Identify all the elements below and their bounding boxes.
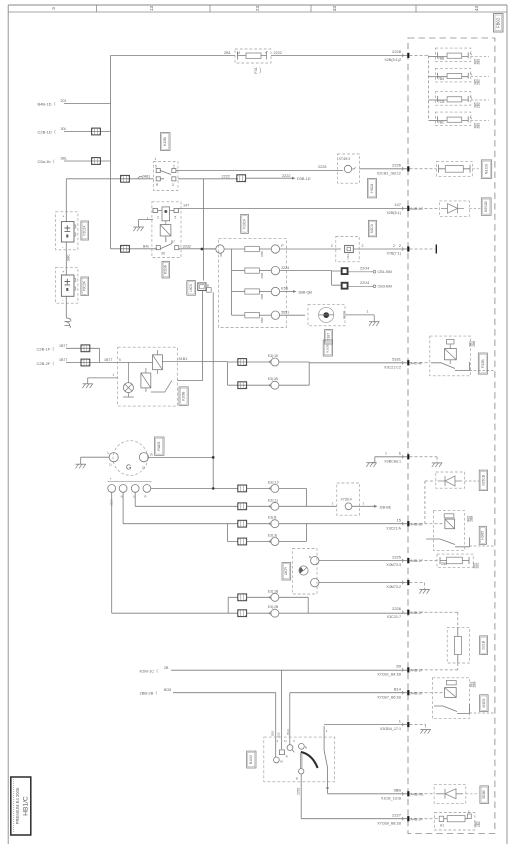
svg-text:5: 5 [155,164,157,168]
generator pin U [131,485,139,493]
socket U1A terminal [345,245,354,252]
wire dimmer2 to panel [319,582,407,584]
svg-text:3O: 3O [161,251,166,255]
svg-text:201: 201 [61,99,67,103]
wire 2226 relay to XT49 [176,170,343,172]
wire row 249 to U1A [280,248,341,250]
switch pivot stem [301,753,302,769]
svg-text:2B2: 2B2 [477,59,481,65]
relay K15B box [154,162,179,191]
wire row 178.8 left segment [66,178,153,180]
wire trunk2 lower [202,291,204,381]
feed dashed bus for lamp fuses [410,55,429,120]
wire row 270 to CB squares [280,271,341,286]
header cell divider 3 [310,5,312,12]
wire fuse to panel [271,54,407,56]
svg-text:U1A: U1A [346,254,350,260]
connector at panel edge y=669.9 [402,668,403,671]
connector at panel edge y=692.7 [402,691,403,694]
svg-text:7CB: 7CB [438,100,445,104]
svg-text:2B2: 2B2 [477,79,481,85]
svg-text:2B2: 2B2 [476,563,480,569]
svg-text:1: 1 [367,310,369,314]
relay H3O5 coil terminal [444,514,454,518]
wire C2B-1F [66,348,100,362]
wire U1A to panel [353,248,407,250]
svg-text:3: 3 [51,7,56,10]
arrow to D3B-1D [292,177,296,180]
socket U1A dashed box [336,237,359,262]
relay H3O5 box [433,511,464,551]
svg-text:X3M73:3: X3M73:3 [386,563,401,567]
wire lighter to ground [345,315,374,322]
fuse element row 249 [245,246,260,251]
svg-text:PREMIUM E4 2006: PREMIUM E4 2006 [15,787,20,824]
relay F30B output 2 [151,381,203,392]
svg-text:33: 33 [332,6,337,12]
terminal E3&#41;:1B [247,596,271,598]
fuse element row 560 [447,557,463,564]
relay 147 pin left [153,208,158,212]
svg-text:2BB: 2BB [472,341,476,347]
svg-text:A4B-2F: A4B-2F [411,691,424,695]
fuse row y=291.5 [232,291,245,293]
svg-text:X1CB_1G:B: X1CB_1G:B [381,796,402,800]
switch pivot terminal [299,769,304,774]
svg-text:E3):1B: E3):1B [268,589,279,593]
relay F30B ground wire [88,378,118,384]
terminal circle M1 row 249 [203,248,216,250]
svg-text:5: 5 [175,215,177,219]
svg-text:X7CB1_B4:1B: X7CB1_B4:1B [377,673,401,677]
svg-text:A4B-BF: A4B-BF [411,522,424,526]
wire C5a-1b to trunk [64,160,111,162]
fuse F4 branch [429,119,438,121]
svg-text:3BB: 3BB [393,788,401,793]
relay F30B coil 2 [141,373,151,388]
svg-text:2222: 2222 [282,174,290,178]
wire dashed to ground right of panel edge [410,457,438,463]
svg-text:51B1: 51B1 [179,357,188,361]
svg-text:E3):3): E3):3) [268,534,277,538]
wire B14 dashed into panel [410,692,445,694]
connector at panel edge y=55.4 [402,54,403,57]
svg-text:2: 2 [362,244,364,248]
wire row J to panel [328,793,407,795]
svg-text:K15B: K15B [163,137,167,146]
connector at panel edge y=582.6 [402,581,403,584]
label box K6S1B [481,198,491,215]
svg-text:A4B-1F: A4B-1F [411,559,424,563]
svg-text:30L: 30L [61,127,67,131]
svg-text:JB: JB [326,786,330,790]
switch pin c [287,745,293,751]
svg-text:2): 2) [142,466,145,470]
connector at panel edge y=560.6 [402,559,403,562]
relay H3O5 contact [426,537,469,547]
svg-text:C2B-1D〈: C2B-1D〈 [38,129,56,134]
svg-text:1): 1) [109,463,112,467]
svg-text:E3):35: E3):35 [268,377,278,381]
junction connector CB1 (filled) [341,267,349,275]
diode symbol 5D5B [436,789,463,799]
label box K2OA [162,261,170,278]
terminal E3&#41;:3&#41; [247,541,271,543]
cigar lighter element [319,307,334,322]
wire dashed to ground row 582 [410,583,425,590]
wire 147 dashed into panel [410,207,440,209]
svg-text:7: 7 [332,502,334,506]
wire 2 dashed stub and terminator [410,248,436,250]
connector X72B:4 terminal [345,503,352,510]
wire 15 dashed into panel [410,523,445,525]
svg-text:X72B:4: X72B:4 [341,498,352,502]
generator pin N [119,485,127,493]
label box X1B7 [325,330,333,345]
label box K15B [161,133,171,151]
relay 147 coil [162,207,170,221]
wire 2225 dashed into panel [410,560,438,562]
svg-text:23: 23 [255,6,260,12]
wire row D to row C merge [279,524,407,542]
fuse element F1 [447,53,462,58]
svg-text:3: 3 [172,183,174,187]
trunk 1 vertical [110,56,112,249]
page border right [506,5,508,844]
svg-text:J2B-BE: J2B-BE [379,505,392,509]
wire B4B-1D to trunk [64,103,111,105]
wire C2B-2F to relay [66,362,118,364]
terminal E3C:15 [271,358,279,366]
svg-text:X2B(5:1): X2B(5:1) [386,211,401,215]
switch lever [301,752,318,768]
svg-text:F32B: F32B [481,359,485,368]
fuse box row 560 [437,554,473,567]
label box D21B [480,636,488,655]
svg-text:22O4: 22O4 [360,266,369,270]
wire row 362 to panel [309,362,407,364]
svg-text:H3CA: H3CA [370,183,374,193]
relay F32B contact [431,362,470,371]
title block tick strip [13,779,15,833]
ground F30B [83,383,93,385]
wire socket F2 to socket F3 [65,242,67,275]
svg-text:A5B: A5B [260,318,264,324]
svg-text:D3B-1D: D3B-1D [297,177,311,181]
wire row 178.8 right of relay [178,178,238,180]
switch contact right [324,726,328,794]
svg-text:S25CB: S25CB [481,474,485,485]
svg-text:147: 147 [394,202,401,207]
dashed drop from row 523.7 up to diode [425,481,436,524]
svg-text:5181: 5181 [392,357,402,362]
svg-text:2B2: 2B2 [477,102,481,108]
cigar lighter X1B7 box [308,305,345,326]
generator pin 31S6 [108,485,116,493]
connector at panel edge y=208.4 [402,207,403,210]
socket F3 body [61,275,74,296]
svg-text:K2OB: K2OB [181,391,185,401]
wire pivot down to row K [301,774,407,819]
svg-text:2222: 2222 [274,51,282,55]
cluster feed vertical [231,249,233,315]
svg-text:CB1-BM: CB1-BM [378,270,392,274]
label box RAD5 [155,437,165,455]
diode 5D5B box [434,785,466,804]
svg-text:A4B-1F: A4B-1F [411,669,424,673]
svg-text:H2CB1: H2CB1 [326,343,330,353]
fuse bottom right pin [465,818,467,820]
svg-text:2B2: 2B2 [477,821,481,827]
diode symbol [441,204,464,214]
svg-text:BO5: BO5 [164,688,171,692]
fuse F31 dashed box [235,49,271,63]
label box S25CB [479,470,487,491]
svg-text:2B: 2B [164,666,169,670]
dimmer rheostat dashed box [293,549,318,595]
wire ground to row 456.8 [372,457,408,463]
header cell divider 4 [415,5,417,12]
relay F30B box [118,347,178,406]
wire 5181 dashed into panel [410,362,430,364]
connector at panel edge y=249.0 [402,247,403,250]
svg-text:B14: B14 [394,687,402,692]
wire row A to row B merge [279,488,337,506]
svg-text:X3C21:A: X3C21:A [386,526,401,530]
title block box [11,777,31,835]
wire dashed to ground row 724 [410,725,426,730]
ground relay147 [133,226,143,228]
svg-text:2224: 2224 [281,266,289,270]
page border top [8,4,507,6]
relay 147 switch contact [160,238,172,249]
drop 2 from row 692 to switch [289,693,291,745]
svg-text:K2M-1C〈: K2M-1C〈 [140,668,159,673]
relay F30B internal wires [118,363,153,379]
chassis clamp symbol [65,318,71,326]
junction connector CB3 (filled) [341,282,349,290]
fuse bottom left pin [439,816,444,821]
splice connector row 488.4 [238,485,247,492]
svg-text:1: 1 [147,217,149,221]
terminal circle row 249 right [271,245,279,253]
fuse element bottom [444,818,448,820]
generator dashed circle [113,441,148,476]
relay 147 switch pins [156,246,160,250]
wire side pin down trunk [212,292,214,488]
junction dot trunk2 row249 [201,248,204,251]
ground row 456 left [366,462,376,464]
diode S25CB box [436,472,465,488]
fuse element N1CB [445,166,463,173]
svg-text:1B77: 1B77 [59,358,67,362]
splice hook 2AB1 [138,176,143,178]
svg-text:43: 43 [474,6,479,12]
switch pin b (square) [280,750,285,755]
terminal E3&#41;:2B [247,612,271,614]
header bar bottom line [8,11,507,13]
svg-text:HB1/C: HB1/C [23,796,30,816]
label box L8CR [282,563,291,581]
trunk 2 vertical [203,179,205,281]
switch pin a [274,757,280,763]
connector at panel edge y=793.8 [402,792,403,795]
fuse F2 branch [429,76,438,78]
drop 1 from row 692 to switch [275,693,277,757]
drop from row 670 to switch [281,670,283,749]
svg-text:2226: 2226 [392,606,402,611]
svg-text:C5a-1b〈: C5a-1b〈 [38,159,55,164]
svg-text:7BB: 7BB [441,562,448,566]
fuse element F4 [447,117,462,122]
svg-text:13: 13 [149,6,154,12]
fuse element F31 [246,53,261,59]
dashed link resistor to row 670 [410,663,458,670]
wire row I to panel [324,724,407,726]
svg-text:A1: A1 [440,824,444,828]
ground lighter [369,321,379,323]
label box F32B [478,353,487,374]
wire dimmer1 to panel [319,560,407,562]
wire socket F3 down [65,296,67,318]
wire row 291 arrow [280,291,293,293]
wire to arrow D3B-1D [246,177,292,179]
relay K15B contact [160,171,171,179]
header cell divider 1 [96,5,98,12]
connector XT49:3 terminal [344,165,351,172]
svg-text:2B: 2B [396,664,401,669]
pass-through connector E3 [198,283,206,291]
splice connector row 248 [121,245,130,252]
page border left [7,5,9,844]
wire rejoin rows 362-385 [279,362,309,385]
svg-text:CB3-BM: CB3-BM [378,285,392,289]
svg-text:E3):B: E3):B [268,516,277,520]
fuse box bottom [434,813,475,831]
svg-text:K2OA: K2OA [164,264,168,274]
svg-text:22O4: 22O4 [360,281,369,285]
label box H2CB1 [323,340,332,356]
relay F32B coil [444,349,456,360]
generator terminal R [139,453,148,462]
svg-text:5: 5 [119,358,121,362]
svg-text:B1O3: B1O3 [249,755,253,764]
wire gen pin R row A [151,487,238,489]
svg-text:X2B(5:1)2: X2B(5:1)2 [384,58,401,62]
svg-text:7BC: 7BC [438,121,445,125]
relay K15B pin 1 [156,169,160,173]
svg-text:A5B: A5B [260,294,264,300]
svg-text:7: 7 [363,502,365,506]
splice connector C2B-2F [81,359,90,366]
svg-text:X1B7: X1B7 [326,333,330,341]
svg-text:3332: 3332 [183,244,191,248]
fuse F3 branch [429,99,438,101]
fuse row y=270.6 [232,270,245,272]
relay 147 pin right [174,208,179,212]
socket F3 plus contact [65,279,71,285]
svg-text:N1CB: N1CB [484,164,489,175]
connector at panel edge y=168.8 [402,167,403,170]
relay K15B pin 4 [172,177,176,181]
svg-text:1: 1 [399,452,401,456]
splice connector row 613.2 [238,610,247,617]
svg-text:F2C2A: F2C2A [83,225,87,236]
svg-text:3OC: 3OC [67,254,71,262]
svg-text:A5B: A5B [260,251,264,257]
socket F2 body [61,222,74,242]
svg-text:1: 1 [385,452,387,456]
wire row 315 to lighter [280,314,305,316]
resistor D21B box [447,627,469,663]
svg-text:A41-4F: A41-4F [411,361,424,365]
relay K15B pin 2 [172,169,176,173]
svg-text:A5B: A5B [260,273,264,279]
splice connector row 178 [121,175,130,182]
wire down to socket F2 [65,179,67,222]
svg-text:F13CA: F13CA [242,218,246,229]
relay F30B lamp [123,383,133,393]
branch to row D [227,524,237,542]
connector at panel edge y=818.7 [402,817,403,820]
svg-text:2B1: 2B1 [224,51,231,55]
wire 5181 out [177,360,227,362]
ground right top [432,462,442,464]
svg-text:C2B-1F〈: C2B-1F〈 [37,346,55,351]
svg-text:B: B [296,777,298,781]
svg-text:+: + [110,477,112,481]
relay M3D5 coil terminal [446,681,456,685]
terminal E3&#41;:B [247,523,271,525]
svg-text:M2CA: M2CA [370,223,374,233]
svg-text:X7B(7:1): X7B(7:1) [386,252,401,256]
wire C2B-1D to trunk [64,131,111,133]
svg-text:X3GB4_17:1: X3GB4_17:1 [380,727,401,731]
connector XT49:3 dashed box [338,154,360,183]
dimmer terminal 2 [311,578,319,586]
wire gen pin U to row B [135,492,237,506]
label box F2C2A [81,221,89,240]
splice connector C2B-1D [92,128,101,135]
svg-text:1B77: 1B77 [104,358,112,362]
svg-text:2228: 2228 [392,49,402,54]
svg-text:2: 2 [393,244,395,248]
fuse row y=315.2 [232,314,245,316]
svg-text:1: 1 [468,810,470,814]
svg-text:B: B [305,746,307,750]
svg-text:5D5B: 5D5B [482,790,486,799]
svg-text:A4B-4C: A4B-4C [411,207,424,211]
svg-text:XT49:3: XT49:3 [339,157,351,161]
wire row 362 split [228,362,271,385]
svg-text:L8CK: L8CK [189,283,193,292]
junction trunk/pin row [212,487,215,490]
svg-text:M: M [237,51,240,55]
splice connector row 597.3 [238,594,247,601]
svg-text:N: N [121,495,123,499]
terminal E3C:35 [271,381,279,389]
label box 5D5B [480,786,489,804]
label box B1O3 [247,751,256,768]
socket F3 dashed box [56,267,78,303]
splice connector C5a-1b [92,158,101,165]
svg-text:7BB: 7BB [438,57,445,61]
connector at panel edge y=612.2 [402,611,403,614]
generator pin strip [108,481,152,483]
svg-text:M3D5: M3D5 [482,698,486,707]
svg-text:2BB: 2BB [470,516,474,522]
relay F32B box [430,336,471,376]
